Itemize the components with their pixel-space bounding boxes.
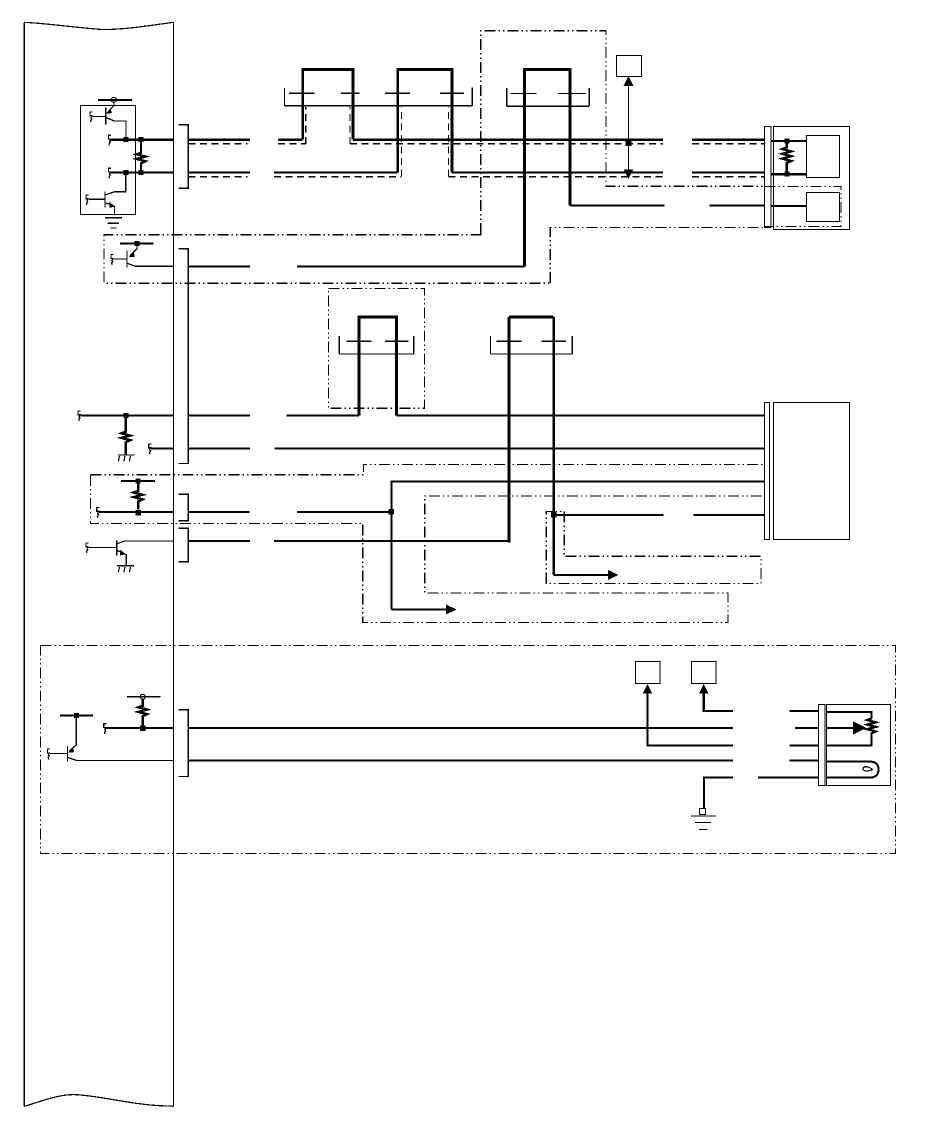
- wire sender signal harness: [189, 727, 733, 729]
- wire SQ2 branch segment 2: [790, 710, 819, 712]
- node junction CANH/R1: [139, 137, 144, 142]
- wire CANL shield dashed segments: [189, 176, 765, 178]
- node junction R4/W3: [135, 510, 141, 516]
- transistor Q3 (PNP, BEAN driver): [114, 243, 138, 267]
- joint connector J5 pin ticks: [497, 340, 567, 342]
- wire J2 shield dashed risers: [402, 107, 449, 177]
- wire ground riser: [704, 778, 733, 808]
- wire ECU torn top edge: [24, 22, 173, 29]
- joint connector J4 pin ticks: [347, 340, 409, 342]
- resistor R6 (sender track): [867, 719, 875, 738]
- wire J3 right leg to gauge (segment 1): [570, 204, 665, 206]
- harness box (dash-dot) around joint connector J3: [481, 31, 765, 235]
- pigtail W2: [149, 444, 152, 454]
- pigtail Q1 base lead: [90, 112, 93, 122]
- power rail (top, with circle terminal): [98, 97, 132, 102]
- CAN driver IC box U1: [81, 106, 136, 215]
- wire CANH inside ECU: [111, 139, 174, 141]
- node junction R5/sender signal: [140, 725, 146, 731]
- wire ECU torn bottom edge: [24, 1095, 173, 1107]
- component sub-box M2b: [807, 193, 840, 222]
- chassis ground G2: [118, 455, 135, 461]
- pigtail Q2 base lead: [86, 195, 89, 205]
- wire CANL harness segment 3: [452, 172, 663, 174]
- wire CANH shield dashed segments: [189, 143, 765, 145]
- node junction drain/shield: [626, 140, 632, 146]
- resistor R2 (terminating): [782, 141, 791, 174]
- wire SQ1 branch segment 2: [790, 745, 819, 747]
- harness line (dash-dot) upper snake: [91, 464, 765, 474]
- pigtail Q3 base lead: [111, 255, 114, 265]
- wire W2 segment 1: [189, 447, 250, 449]
- pigtail CANH: [108, 135, 111, 145]
- fuel sender M4 box: [827, 705, 891, 786]
- pigtail sender signal: [104, 724, 107, 734]
- wire CANH harness segment 3: [353, 139, 663, 141]
- pigtail Q4 base lead: [86, 543, 89, 553]
- wire sender return harness: [189, 759, 733, 761]
- wire M2b pin stub: [771, 205, 806, 207]
- harness box (dash-dot) around transistor Q3: [104, 234, 550, 283]
- resistor R1 (CANH-CANL terminating): [137, 140, 146, 173]
- transistor Q4 (NPN, W4 driver): [89, 540, 127, 566]
- wire CANL harness segment 4: [692, 172, 764, 174]
- joint connector J1 hump: [303, 69, 353, 139]
- wire W2 segment 2 (to gauge): [274, 447, 764, 449]
- connector bracket M4: [819, 705, 826, 786]
- joint connector J4 hump: [359, 317, 396, 415]
- shield ground square: [617, 56, 642, 77]
- wire W1 segment 3 (to gauge): [396, 414, 764, 416]
- connector bracket M3: [765, 403, 770, 540]
- node junction Q2-collector/CANL: [123, 170, 128, 175]
- joint connector J3 hump: [525, 69, 570, 106]
- wire SQ2 branch: [699, 684, 733, 711]
- harness line (dash-dot) lower snake: [91, 475, 765, 623]
- wire W3 segment 2: [297, 511, 392, 513]
- wire W4 feed to gauge (segment 1): [554, 514, 664, 516]
- node junction R2 top: [784, 138, 789, 143]
- wire W1 segment 2: [286, 414, 359, 416]
- wire sender signal inside ECU: [106, 727, 173, 729]
- wire W2 inside ECU: [151, 447, 173, 449]
- wire BEAN segment 2: [297, 265, 525, 267]
- resistor R3 (to ground): [121, 415, 130, 454]
- resistor R4 (pull-up): [134, 481, 143, 510]
- node junction CANL/R1: [139, 170, 144, 175]
- wire W3 segment 1: [189, 511, 250, 513]
- joint connector J5 body: [491, 336, 573, 354]
- wire J3 right leg down: [568, 104, 571, 206]
- wire W4 inside ECU: [125, 540, 174, 542]
- transistor Q5 (PNP): [50, 716, 77, 762]
- instrument/junction module M2 outer box: [774, 127, 850, 230]
- pigtail W3: [97, 508, 100, 518]
- wire CANH harness segment 1: [189, 139, 250, 141]
- wire J3 left leg down to BEAN line: [523, 104, 526, 266]
- pigtail W1: [78, 411, 81, 421]
- resistor R2 feed stubs: [771, 141, 806, 174]
- wire CANH harness segment 2: [278, 139, 303, 141]
- transistor Q2 (NPN low-side): [89, 175, 126, 216]
- node ECU-left-edge: [23, 22, 25, 1106]
- harness box (dash-dot) around arrow A1: [546, 512, 761, 584]
- node junction R2 bottom: [784, 172, 789, 177]
- node ECU-right-edge: [172, 22, 174, 1106]
- harness line (dash-dot) J3 to M2 lower: [550, 227, 764, 283]
- wire W1 segment 1: [189, 414, 250, 416]
- wire W3 riser and feed to gauge: [391, 481, 764, 609]
- pigtail Q5 base lead: [47, 749, 50, 759]
- joint connector J5 hump: [509, 315, 554, 318]
- component sub-box M2a: [807, 136, 840, 178]
- wire BEAN segment 1: [189, 265, 250, 267]
- node junction rail/R4: [136, 478, 141, 483]
- harness box (dash-dot) around joint connector J4: [329, 289, 425, 409]
- connector bracket M2: [765, 127, 772, 228]
- connector bracket D: [179, 528, 189, 562]
- joint connector J5 right leg: [552, 317, 555, 575]
- connector bracket E: [179, 710, 189, 777]
- joint connector J1 pin ticks: [289, 92, 360, 94]
- float loop element: [826, 762, 878, 778]
- node junction Q3 emitter/power: [135, 241, 140, 246]
- wire SQ1 branch: [643, 684, 733, 746]
- wire CANL harness segment 2: [274, 172, 398, 174]
- wire W3 inside ECU: [99, 511, 173, 513]
- ground G4 (body earth): [691, 816, 716, 830]
- resistor R5 (pull-up): [138, 699, 147, 725]
- wire ground branch: [758, 777, 818, 779]
- arrow continuation A2: [391, 605, 456, 615]
- potentiometer track wires: [826, 712, 871, 745]
- ground point square: [700, 809, 706, 815]
- wiper arrow (sender): [826, 721, 866, 734]
- wire J3 right leg to gauge (segment 2): [710, 204, 765, 206]
- wire W1 inside ECU: [80, 414, 173, 416]
- connector bracket A (ECU pins, CAN): [179, 125, 189, 189]
- power terminal circle pull-up R5: [127, 694, 160, 699]
- node junction W4 branch: [551, 512, 557, 518]
- power bar Q5: [60, 715, 93, 717]
- shield/branch square SQ2: [692, 662, 717, 684]
- pigtail CANL: [108, 168, 111, 178]
- wire W4 feed to gauge (segment 2): [694, 514, 765, 516]
- combination meter M3 box: [774, 403, 850, 540]
- joint connector J2 hump: [398, 69, 452, 172]
- wire W4 segment 2: [274, 540, 510, 542]
- connector bracket C: [179, 494, 189, 520]
- wire CANL inside ECU: [111, 172, 174, 174]
- connector bracket B: [179, 249, 189, 464]
- wire CANH harness segment 4: [692, 139, 764, 141]
- node junction Q1-collector/CANH: [123, 137, 128, 142]
- joint connector J4 body: [339, 336, 414, 354]
- shield/branch square SQ1: [636, 662, 661, 684]
- wire sender return harness segment 2: [790, 759, 819, 761]
- joint connector J1 body (shared with J2): [284, 88, 472, 106]
- node junction Q5 emitter/power: [74, 713, 79, 718]
- joint connector J3 body: [507, 88, 589, 106]
- node junction W1/R3: [123, 413, 128, 418]
- wire sender return inside ECU: [77, 759, 174, 761]
- wire J1 shield dashed risers: [306, 107, 350, 144]
- power bar Q3: [120, 242, 153, 244]
- power bar W3 pull-up rail: [121, 480, 155, 482]
- harness box (dash-dot) fuel sender circuit: [41, 646, 896, 854]
- arrow continuation A1: [554, 570, 619, 580]
- transistor Q1 (PNP high-side): [93, 102, 126, 139]
- node junction W3 branch: [389, 509, 395, 515]
- wire shield drain (double arrow): [624, 76, 634, 179]
- wire W4 segment 1: [189, 540, 250, 542]
- wire sender signal harness segment 2: [795, 727, 818, 729]
- wire CANL harness segment 1: [189, 172, 250, 174]
- joint connector J3 pin ticks: [511, 92, 587, 94]
- joint connector J5 left leg: [508, 317, 511, 543]
- chassis ground G3 (Q4 emitter): [117, 566, 134, 573]
- ground G1 (Q2 emitter): [105, 218, 122, 228]
- harness box (dash-dot) inside M2: [765, 187, 842, 227]
- wire BEAN inside ECU: [136, 265, 174, 267]
- joint connector J2 pin ticks: [385, 92, 464, 94]
